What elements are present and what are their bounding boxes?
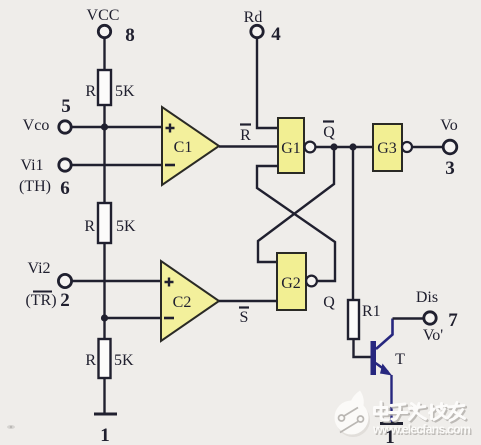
svg-text:6: 6 bbox=[60, 178, 70, 199]
svg-text:Dis: Dis bbox=[416, 289, 438, 306]
terminal VCC pin 8 bbox=[87, 7, 135, 46]
wire R1 to transistor base bbox=[354, 339, 372, 357]
svg-text:R: R bbox=[85, 352, 96, 369]
svg-text:Vi1: Vi1 bbox=[20, 157, 43, 174]
wire R bottom to ground bbox=[103, 378, 105, 414]
svg-text:VCC: VCC bbox=[87, 7, 120, 24]
svg-text:G1: G1 bbox=[281, 140, 301, 157]
svg-text:S: S bbox=[240, 309, 249, 326]
svg-text:Vo': Vo' bbox=[423, 327, 443, 344]
svg-text:C1: C1 bbox=[174, 139, 193, 156]
terminal Vco pin 5 bbox=[23, 96, 72, 134]
wire R top to R middle bbox=[103, 105, 105, 203]
terminal Rd pin 4 bbox=[244, 9, 282, 45]
node junction Qbar-1 bbox=[330, 143, 337, 150]
ground (pin 1 right) bbox=[380, 422, 403, 425]
gate G1 bbox=[278, 118, 315, 173]
wire G2 output to G1 bottom input (cross coupling) bbox=[257, 166, 335, 281]
node junction Qbar-2 bbox=[349, 143, 356, 150]
svg-text:T: T bbox=[395, 351, 405, 368]
node junction divider/C2 minus bbox=[101, 314, 108, 321]
gate G3 bbox=[373, 124, 412, 171]
wire Vi1 to C1 minus input bbox=[72, 164, 163, 166]
wire G1 output to G3 (Qbar net) bbox=[316, 146, 374, 148]
svg-text:Rd: Rd bbox=[244, 9, 263, 26]
svg-text:R: R bbox=[85, 83, 96, 100]
svg-text:8: 8 bbox=[125, 25, 135, 46]
node Rbar label bbox=[240, 125, 251, 145]
watermark url bbox=[372, 423, 472, 438]
wire G3 output to Vo bbox=[412, 146, 443, 148]
transistor T bbox=[371, 319, 406, 376]
svg-text:5: 5 bbox=[61, 96, 71, 117]
terminal Vo pin 3 bbox=[440, 117, 458, 179]
svg-text:1: 1 bbox=[385, 427, 395, 445]
wire Qbar junction down to R1 bbox=[352, 149, 354, 300]
wire divider to C2 minus input bbox=[105, 317, 162, 319]
svg-text:2: 2 bbox=[60, 290, 70, 311]
svg-text:1: 1 bbox=[100, 425, 110, 445]
svg-text:(TH): (TH) bbox=[19, 178, 51, 195]
svg-text:4: 4 bbox=[271, 24, 281, 45]
svg-text:R1: R1 bbox=[362, 303, 381, 320]
comparator C1 bbox=[162, 107, 219, 185]
stray mark bottom-left bbox=[7, 425, 15, 429]
wire collector to Dis bbox=[393, 317, 424, 319]
svg-text:G2: G2 bbox=[281, 275, 301, 292]
resistor R 5K (bottom) bbox=[85, 339, 134, 378]
node Sbar label bbox=[239, 308, 249, 327]
node Qbar label bbox=[323, 122, 335, 142]
wire Vco to C1 plus input bbox=[72, 126, 163, 128]
watermark logo bbox=[335, 391, 371, 438]
wire emitter to ground bbox=[390, 375, 392, 423]
svg-text:R: R bbox=[240, 127, 251, 144]
svg-text:Q: Q bbox=[323, 294, 335, 311]
svg-text:G3: G3 bbox=[377, 140, 397, 157]
terminal Vi1 (TH) pin 6 bbox=[19, 157, 71, 199]
comparator C2 bbox=[161, 261, 219, 341]
wire Rd to G1 top input bbox=[257, 38, 278, 128]
resistor R1 bbox=[348, 300, 381, 339]
gate G2 bbox=[277, 253, 317, 310]
svg-text:5K: 5K bbox=[114, 352, 134, 369]
svg-text:7: 7 bbox=[448, 310, 458, 331]
terminal Vi2 (TR) pin 2 bbox=[25, 260, 71, 311]
svg-text:5K: 5K bbox=[116, 218, 136, 235]
ground (pin 1 left) bbox=[94, 414, 117, 445]
svg-text:Vo: Vo bbox=[440, 117, 458, 134]
watermark text elecfans bbox=[375, 402, 467, 422]
wire Qbar to G2 top input (cross coupling) bbox=[258, 149, 334, 262]
svg-text:Q: Q bbox=[323, 124, 335, 141]
svg-text:R: R bbox=[84, 218, 95, 235]
terminal Dis pin 7 bbox=[416, 289, 458, 344]
svg-text:5K: 5K bbox=[115, 83, 135, 100]
node junction Vco/divider bbox=[101, 123, 108, 130]
wire R middle to R bottom bbox=[103, 243, 105, 339]
svg-text:3: 3 bbox=[445, 158, 455, 179]
svg-text:(TR): (TR) bbox=[25, 292, 56, 309]
wire C2 output to G2 (Sbar net) bbox=[219, 300, 277, 302]
wire C1 output to G1 bbox=[219, 145, 278, 147]
svg-text:Vco: Vco bbox=[23, 117, 50, 134]
svg-text:C2: C2 bbox=[173, 294, 192, 311]
resistor R 5K (top) bbox=[85, 70, 135, 105]
svg-text:Vi2: Vi2 bbox=[27, 260, 50, 277]
wire VCC to R top bbox=[103, 38, 105, 70]
resistor R 5K (middle) bbox=[84, 203, 136, 243]
wire Vi2 to C2 plus input bbox=[72, 280, 161, 282]
